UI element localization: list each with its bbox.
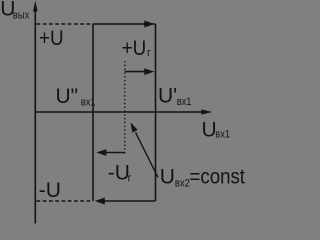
axis Uvh1 (horizontal input axis)	[35, 109, 212, 114]
svg-text:вых: вых	[13, 10, 30, 22]
svg-text:вх2: вх2	[175, 177, 190, 189]
svg-text:U": U"	[56, 85, 79, 108]
svg-text:=const: =const	[190, 165, 246, 188]
label U_vyh	[0, 0, 30, 22]
dotted vertical reference line	[124, 61, 126, 154]
label +Ug	[122, 37, 151, 60]
dashed level -U	[37, 200, 91, 202]
arrow +Ug (right pointing)	[125, 68, 155, 75]
svg-text:+U: +U	[122, 37, 147, 60]
svg-text:U: U	[160, 165, 175, 188]
svg-text:вх1: вх1	[215, 129, 230, 141]
svg-text:г: г	[147, 47, 151, 59]
dashed level +U	[37, 23, 94, 25]
svg-text:вх1: вх1	[81, 97, 96, 109]
svg-text:U': U'	[158, 84, 177, 107]
hysteresis right vertical branch	[155, 24, 157, 201]
svg-text:-U: -U	[39, 179, 61, 202]
diagonal pointer arrow to Uvh2=const	[131, 122, 159, 177]
hysteresis left vertical branch	[92, 24, 94, 201]
hysteresis top segment with right arrow	[93, 21, 156, 28]
label U''_vh1 (left threshold)	[56, 85, 96, 109]
svg-text:вх1: вх1	[177, 96, 192, 108]
arrow -Ug (left pointing)	[96, 149, 125, 156]
hysteresis bottom segment with left arrow	[95, 198, 156, 205]
svg-text:г: г	[128, 173, 132, 185]
axis Uvyh (vertical output axis)	[33, 1, 38, 224]
label U_vh1 (axis name)	[202, 118, 231, 141]
svg-text:+U: +U	[39, 27, 64, 50]
label U_vh2=const	[160, 165, 245, 189]
label U'_vh1 (right threshold)	[158, 84, 192, 108]
label -Ug	[108, 162, 132, 185]
